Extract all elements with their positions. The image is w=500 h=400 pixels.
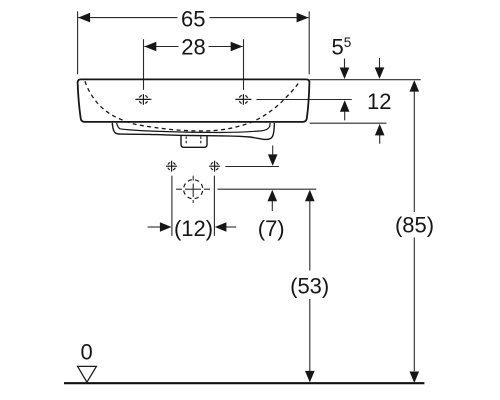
svg-text:(7): (7) (258, 216, 285, 241)
svg-text:12: 12 (367, 89, 391, 114)
svg-text:(12): (12) (174, 216, 213, 241)
svg-text:55: 55 (332, 34, 352, 59)
svg-text:(85): (85) (395, 213, 434, 238)
svg-text:28: 28 (181, 35, 205, 60)
svg-text:0: 0 (80, 339, 92, 364)
svg-text:(53): (53) (290, 274, 329, 299)
svg-text:65: 65 (181, 6, 205, 31)
